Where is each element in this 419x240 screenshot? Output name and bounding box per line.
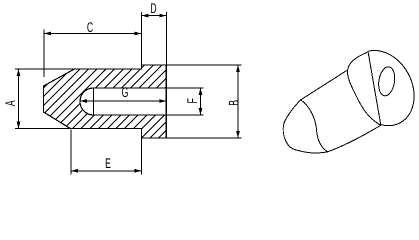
svg-text:D: D xyxy=(150,0,156,16)
dim D extension right xyxy=(165,12,167,65)
dim C line xyxy=(44,33,142,35)
svg-text:F: F xyxy=(184,98,200,103)
dim G line xyxy=(80,100,166,102)
svg-text:B: B xyxy=(225,100,241,106)
svg-text:C: C xyxy=(87,19,93,35)
dim C arrows xyxy=(44,32,51,36)
dim C/D shared extension xyxy=(141,12,143,65)
dim A arrows xyxy=(17,69,21,76)
dim B extension lines xyxy=(166,65,241,138)
3d body top silhouette xyxy=(301,71,347,100)
dim F arrows xyxy=(199,88,203,95)
3d cone top silhouette xyxy=(284,100,301,122)
svg-text:A: A xyxy=(2,100,18,106)
dim E line xyxy=(71,170,142,172)
3d body-cone junction arc xyxy=(301,100,328,152)
dim G arrows xyxy=(80,99,87,103)
3d nose end face arc xyxy=(283,122,300,151)
dim B arrows xyxy=(236,65,240,72)
dim A line xyxy=(18,69,20,129)
dim B line xyxy=(237,65,239,138)
3d flange face outline (right face with left chord) xyxy=(368,51,414,126)
dim C extension line left xyxy=(43,30,45,78)
3d flange back rim arc xyxy=(348,53,381,126)
3d hole ellipse xyxy=(377,66,397,97)
3d body bottom silhouette xyxy=(328,125,381,152)
svg-text:G: G xyxy=(122,84,129,100)
blind hole outline with round end xyxy=(80,88,166,115)
dim E arrows xyxy=(71,169,78,173)
dim F line xyxy=(200,88,202,115)
part outline (section of plug body with flange) xyxy=(44,65,167,138)
dim F extension lines xyxy=(166,88,203,115)
dim D line xyxy=(142,15,167,17)
dim A extension lines xyxy=(15,69,75,129)
dim E extension lines xyxy=(71,130,142,175)
svg-text:E: E xyxy=(105,155,111,171)
dim D arrows xyxy=(142,14,149,18)
3d cone bottom silhouette xyxy=(300,151,328,153)
